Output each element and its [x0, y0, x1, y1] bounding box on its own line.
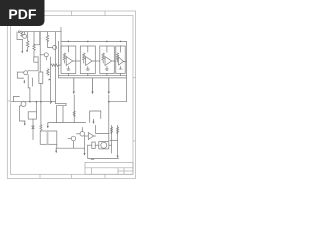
- resistor R1: [27, 41, 29, 50]
- transistor Q2: [40, 53, 48, 60]
- wire U4 bottom stub: [120, 74, 122, 76]
- wire M1 right: [109, 144, 112, 146]
- op-amp U5: [88, 133, 93, 140]
- wire bias vertical: [39, 32, 41, 72]
- wire P1 continue: [73, 95, 75, 123]
- wire R2 feed: [33, 32, 35, 44]
- wire R5 feed: [47, 32, 49, 36]
- op-amp block U3: [100, 46, 116, 74]
- wire T1 out: [57, 144, 85, 148]
- resistor R10: [21, 32, 23, 37]
- junction dot rail U2: [87, 41, 89, 43]
- wire U5 out: [94, 135, 96, 137]
- relay box K1: [28, 112, 36, 119]
- net label: [91, 159, 94, 160]
- wire left drop: [58, 41, 60, 78]
- wire stub down right: [90, 111, 101, 123]
- wire U3 bottom stub: [106, 74, 108, 76]
- connector arrow C: [93, 120, 95, 122]
- PDF badge: [0, 0, 45, 26]
- wire Q4 emitter drop: [20, 107, 25, 122]
- junction dot rail U1: [68, 41, 70, 43]
- transistor Q4: [20, 102, 27, 107]
- wire Q5 base: [77, 133, 81, 135]
- wire right pair b: [117, 126, 119, 156]
- wire C5 left: [88, 144, 92, 146]
- node arrow A: [23, 80, 25, 81]
- wire rail mid lower: [57, 104, 66, 106]
- wire Q3 emitter: [28, 75, 30, 102]
- wire lower bus 1: [59, 75, 127, 77]
- junction dot: [51, 101, 53, 103]
- wire bracket: [14, 96, 20, 101]
- wire Q6 emitter: [73, 141, 75, 148]
- resistor R7 horizontal: [51, 64, 62, 66]
- wire Q6 base: [68, 138, 71, 140]
- wire collector branch: [34, 32, 40, 45]
- wire U2 bottom stub: [87, 74, 89, 76]
- output arrow P2: [92, 78, 94, 92]
- wire K1 top: [35, 102, 37, 112]
- transistor Q5: [80, 132, 85, 137]
- wire rail mid: [12, 101, 56, 103]
- wire R1 feed: [27, 32, 29, 41]
- resistor R11 hatches: [111, 127, 113, 134]
- wire bottom bus: [48, 122, 86, 124]
- wire drop w/ arrow: [21, 39, 23, 51]
- wire M1 left: [95, 144, 99, 146]
- resistor R5: [46, 35, 48, 42]
- wire R13 out: [28, 62, 38, 71]
- input terminal: [18, 31, 20, 33]
- wire op-amp supply rail: [61, 40, 127, 42]
- output arrow P1: [73, 78, 75, 92]
- connector arrow T1 bottom: [55, 148, 57, 151]
- transistor Q1: [23, 32, 27, 39]
- wire Q3 collector stub: [31, 78, 33, 86]
- wire lower bus 2: [59, 77, 127, 79]
- output arrow P3: [108, 78, 110, 92]
- wire mid vertical: [55, 32, 57, 104]
- op-amp block U1: [61, 46, 80, 74]
- wire input L-stub: [17, 32, 22, 39]
- junction dot rail U4: [120, 41, 122, 43]
- node arrow feed: [49, 79, 51, 81]
- capacitor C5 box: [92, 142, 95, 149]
- connector arrow T1 top: [47, 124, 49, 127]
- wire U1 bottom stub: [67, 74, 69, 76]
- resistor R9 hatches: [73, 111, 75, 117]
- junction dot: [108, 101, 110, 103]
- wire tie: [110, 139, 118, 141]
- op-amp block U4: [116, 46, 127, 74]
- wire stub box3 down: [96, 126, 109, 134]
- wire rail mid right: [109, 101, 127, 103]
- wire riser: [60, 28, 62, 66]
- junction dot Q3: [29, 101, 31, 103]
- wire Q3 base loop: [17, 72, 23, 78]
- resistor R2: [33, 44, 35, 57]
- ground arrow G2: [117, 156, 119, 159]
- wire long feed: [50, 57, 52, 104]
- transistor Q7: [49, 45, 57, 49]
- resistor R12 hatches: [117, 127, 119, 134]
- svg-text:PDF: PDF: [8, 6, 36, 22]
- wire U5 in: [85, 135, 89, 137]
- amplifier stage row: [59, 41, 127, 95]
- transformer T1: [40, 131, 57, 144]
- diode D1: [32, 119, 34, 139]
- connector arrow B: [24, 121, 26, 124]
- wire R4 bottom: [40, 83, 42, 124]
- wire rail mid drop left: [56, 103, 66, 105]
- wire Q5 collector: [81, 128, 83, 132]
- resistor R6: [47, 69, 49, 75]
- resistor R8 column: [40, 125, 42, 132]
- motor M1: [99, 142, 109, 149]
- resistor R13 box: [34, 57, 38, 62]
- wire P3 continue: [108, 95, 110, 141]
- transistor Q6: [71, 136, 76, 141]
- wire emitter ground: [84, 136, 86, 153]
- junction dot rail U3: [106, 41, 108, 43]
- wire top rail VIN: [20, 31, 61, 33]
- wire drop c1: [56, 106, 58, 123]
- wire R5 to Q7: [48, 42, 50, 47]
- ground arrow G1: [84, 153, 86, 156]
- op-amp block U2: [80, 46, 100, 74]
- wire right bus: [126, 41, 128, 101]
- wire right pair a: [111, 126, 113, 154]
- transistor Q3: [17, 71, 27, 75]
- wire above title block: [88, 145, 119, 158]
- wire drop c2: [62, 106, 64, 123]
- resistor R4 box: [39, 72, 43, 83]
- junction dot: [40, 101, 42, 103]
